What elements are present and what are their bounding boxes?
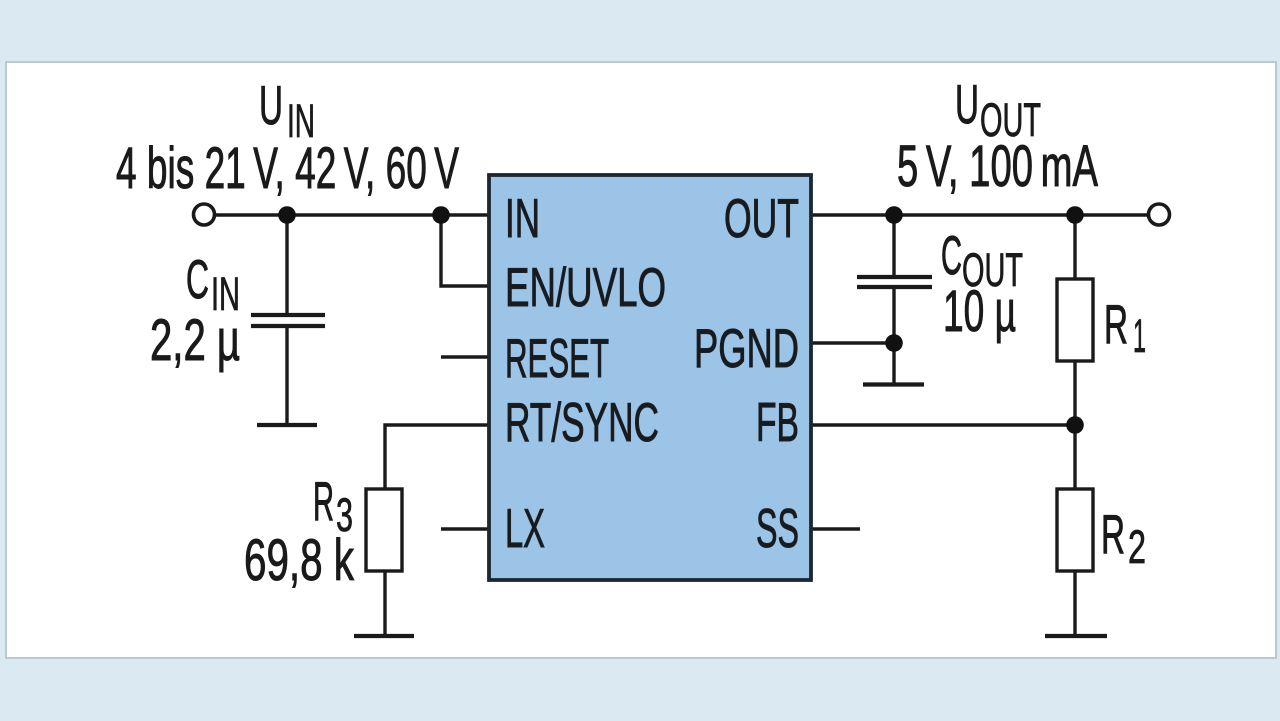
svg-text:RESET: RESET [505,327,609,389]
svg-text:PGND: PGND [694,317,799,379]
svg-text:R: R [313,470,334,532]
svg-text:EN/UVLO: EN/UVLO [505,256,666,318]
svg-text:1: 1 [1133,309,1146,362]
svg-text:3: 3 [336,488,353,541]
svg-text:FB: FB [756,391,799,453]
svg-text:IN: IN [287,94,315,147]
svg-text:C: C [941,224,962,286]
svg-text:LX: LX [505,497,545,559]
svg-text:OUT: OUT [980,93,1041,146]
svg-text:RT/SYNC: RT/SYNC [505,391,659,453]
svg-text:R: R [1101,503,1125,565]
svg-text:R: R [1104,293,1128,355]
svg-text:IN: IN [211,267,240,320]
svg-text:U: U [955,73,979,135]
svg-text:2: 2 [1128,520,1146,573]
svg-text:SS: SS [756,497,799,559]
svg-text:U: U [259,74,283,136]
svg-text:C: C [186,248,209,310]
svg-text:OUT: OUT [962,243,1023,296]
svg-text:OUT: OUT [724,187,799,249]
svg-text:IN: IN [505,187,540,249]
